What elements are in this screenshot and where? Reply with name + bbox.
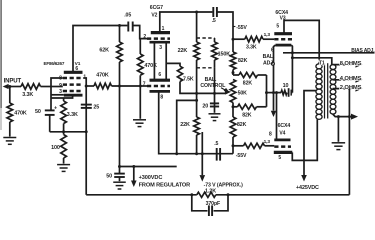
tube V1 grid row pin 8 (59, 75, 83, 81)
text 8 OHMS (340, 61, 362, 67)
wire top rail junction (195, 11, 198, 14)
svg-text:BAL.: BAL. (263, 54, 275, 60)
wire -73V drop (200, 132, 206, 182)
wire center tap to +425VDC (304, 91, 317, 175)
tube V1 pin 1 label (83, 74, 86, 80)
wire 22K column middle (195, 60, 198, 117)
svg-text:V4: V4 (279, 131, 285, 137)
svg-text:+: + (54, 106, 57, 112)
svg-text:470K: 470K (14, 110, 27, 116)
text BIAS ADJ (351, 48, 375, 54)
svg-text:ADJ.: ADJ. (263, 61, 275, 67)
wire V1 cathode rail (50, 130, 88, 133)
capacitor 20uF (202, 103, 219, 109)
potentiometer 50K balance (225, 80, 248, 103)
svg-text:50: 50 (106, 173, 112, 179)
resistor 22K upper (178, 42, 200, 60)
wire grid stopper to V1 grid bracket (41, 86, 52, 88)
tube V2b grid pin 7 (143, 82, 170, 88)
resistor 470K screen feed (94, 72, 112, 88)
text 1.2K (205, 188, 216, 194)
text 4 OHMS (340, 76, 362, 82)
capacitor 50uF B+ bypass (106, 167, 125, 182)
resistor 3.3K V3 grid (233, 36, 274, 50)
wire cathode node (267, 91, 282, 94)
svg-text:50: 50 (35, 109, 41, 115)
svg-text:62K: 62K (99, 47, 109, 53)
arrow +425VDC (296, 175, 319, 191)
wire link box to 7.5K (166, 63, 180, 66)
tube V2 pin 1 label (162, 26, 165, 32)
wire dashed link upper (197, 37, 215, 39)
node 62K junction (118, 24, 121, 27)
svg-text:2 OHMS: 2 OHMS (340, 85, 362, 91)
tube V4 pin 8 label (269, 131, 272, 137)
tube V3 pin 5 (276, 24, 279, 30)
capacitor 50uF cathode bypass (35, 106, 57, 132)
wire cathode to 8 ohm tap (292, 58, 331, 65)
capacitor 25uF screen bypass (81, 105, 99, 111)
wire corner 22K top link (177, 100, 197, 153)
wire screen node row (85, 85, 94, 88)
capacitor .5 lower (214, 141, 220, 160)
tube V2a plate (151, 31, 170, 34)
svg-text:INPUT: INPUT (4, 79, 22, 85)
tube V2b pin 6 label (158, 72, 161, 78)
wire V2 section link box (154, 44, 166, 80)
resistor 82K upper horizontal (233, 72, 267, 86)
wire 22K column bottom (196, 135, 198, 154)
wire V1 grid bracket (51, 78, 64, 110)
svg-text:22K: 22K (180, 122, 190, 128)
wire coupling cap to V2 grid (133, 26, 147, 39)
wire 150K to ground (214, 68, 216, 113)
wire secondary common (333, 114, 358, 120)
wire V1 plate riser and top rail (73, 26, 127, 73)
ground 150K bypass (209, 114, 221, 121)
svg-text:FROM REGULATOR: FROM REGULATOR (139, 183, 191, 189)
tube V3 pin 6 label (271, 47, 274, 53)
svg-text:50K: 50K (238, 91, 248, 97)
text 2 OHMS (340, 85, 362, 91)
wire 2 ohm output (333, 86, 363, 92)
tube V3 label (275, 10, 288, 21)
wire V2 plate riser and top rail (160, 12, 213, 33)
svg-text:8 OHMS: 8 OHMS (340, 61, 362, 67)
tube V2a grid pin 2 (143, 34, 170, 40)
transformer T1 label (319, 60, 325, 66)
resistor 100 ohm (51, 132, 66, 164)
svg-text:T1: T1 (319, 60, 325, 66)
tube V1 cathode (64, 94, 83, 97)
svg-text:-55V: -55V (236, 153, 247, 159)
capacitor cathode bypass (289, 88, 293, 97)
svg-text:6CG7: 6CG7 (150, 5, 163, 11)
wire 8 ohm output (333, 62, 363, 68)
svg-text:.5: .5 (212, 18, 216, 24)
svg-text:25: 25 (93, 105, 99, 111)
tube V3 cathode (276, 44, 292, 47)
svg-text:1,3: 1,3 (264, 139, 271, 145)
tube V1 grid row pin 9 (59, 83, 83, 89)
ground secondary (332, 143, 346, 150)
tube V2 label (150, 5, 163, 18)
tube V4 grid (264, 139, 291, 147)
terminal BAL ADJ (271, 62, 274, 65)
resistor 10 ohm (281, 83, 288, 95)
wire dashed link lower (197, 67, 215, 69)
wire bridge right side (265, 75, 268, 107)
wire V3 plate loop (284, 20, 319, 62)
resistor 470K V2 grid leak (138, 39, 158, 86)
tube V4 cathode (274, 138, 290, 141)
svg-text:150K: 150K (218, 52, 231, 58)
wire pot to lower bridge (232, 103, 235, 118)
svg-text:3.3K: 3.3K (67, 112, 78, 118)
resistor 470K input load (7, 87, 27, 137)
tube V4 label (278, 123, 291, 137)
svg-text:82K: 82K (243, 81, 253, 87)
svg-text:100: 100 (51, 145, 60, 151)
wire feedback rail right (216, 193, 350, 196)
svg-text:8: 8 (160, 94, 163, 100)
wire V4 cathode riser (276, 93, 278, 140)
svg-text:4 OHMS: 4 OHMS (340, 76, 362, 82)
node INPUT terminal (3, 79, 22, 90)
wire V3 cathode right drop (291, 45, 294, 93)
wire V2b cathode drop to -55V rail (159, 91, 233, 155)
wire V3 cathode left stub to BAL line (272, 45, 276, 111)
tube V3 grid (264, 32, 292, 39)
resistor 82K lower horizontal (233, 104, 267, 118)
wire primary top (318, 63, 320, 65)
tube V2a cathode (150, 42, 171, 51)
resistor 150K (212, 38, 231, 68)
resistor 22K lower (180, 117, 199, 135)
svg-text:6CX4: 6CX4 (278, 123, 291, 129)
svg-text:82K: 82K (242, 112, 252, 118)
tube V4 pin 5 (278, 155, 281, 161)
wire 7.5K to balance wiper (180, 82, 225, 95)
arrow +300VDC feed (131, 167, 137, 188)
svg-text:1,3: 1,3 (264, 32, 271, 38)
svg-text:.05: .05 (124, 13, 131, 19)
node -55V lower (236, 153, 247, 159)
svg-text:82K: 82K (238, 58, 248, 64)
wire feedback left riser (85, 132, 87, 195)
ground B+ bypass (113, 182, 126, 189)
text BAL CONTROL (200, 77, 229, 92)
wire screen row to 62K node (112, 85, 142, 88)
svg-text:+425VDC: +425VDC (296, 185, 319, 191)
svg-text:22K: 22K (178, 48, 188, 54)
resistor 7.5K (177, 66, 194, 82)
transformer core (325, 63, 328, 118)
capacitor 370pF (192, 195, 228, 216)
svg-text:20: 20 (202, 103, 208, 109)
tube V1 grid row pin 3 (59, 89, 83, 95)
tube V3 plate (274, 32, 292, 35)
svg-text:10: 10 (283, 83, 289, 89)
svg-text:3.3K: 3.3K (246, 44, 257, 50)
resistor V4 grid feed (233, 143, 274, 148)
ground V2 grid leak (133, 120, 146, 127)
transformer secondary winding (330, 65, 336, 115)
wire V2b grid leader (140, 85, 147, 87)
svg-text:BIAS ADJ.: BIAS ADJ. (351, 48, 375, 54)
ground 100 ohm (57, 165, 70, 172)
scan edge artifact (0, 0, 2, 130)
ground input load (3, 138, 16, 145)
resistor 82K upper vertical (230, 39, 236, 75)
svg-text:CONTROL: CONTROL (200, 83, 226, 89)
wire 470K to ground (139, 86, 141, 119)
wire input to grid resistor (8, 86, 22, 88)
tube V2b plate (150, 79, 171, 82)
tube V1 plate (64, 71, 83, 74)
text BAL ADJ (263, 54, 275, 67)
svg-text:7.5K: 7.5K (183, 76, 194, 82)
svg-text:5: 5 (278, 155, 281, 161)
svg-text:2: 2 (143, 34, 146, 40)
tube V1 label (44, 61, 81, 67)
wire V4 plate to primary bottom (292, 119, 317, 160)
svg-text:8: 8 (269, 131, 272, 137)
tube V1 pin 6 label (75, 66, 78, 72)
wire 4 ohm output (333, 77, 363, 83)
svg-text:+300VDC: +300VDC (139, 175, 163, 181)
svg-text:5: 5 (276, 24, 279, 30)
arrow bias sense down (271, 111, 276, 117)
svg-text:82K: 82K (237, 122, 247, 128)
svg-text:3: 3 (159, 45, 162, 51)
wire BIAS ADJ line (283, 51, 375, 54)
wire 22K column top (196, 12, 198, 42)
node V3 grid junction (232, 38, 235, 41)
wire top rail to .5 cap (212, 7, 233, 39)
node -55V upper (233, 25, 247, 31)
resistor 3.3K V1 cathode (61, 98, 78, 132)
svg-text:-55V: -55V (236, 25, 247, 31)
tube V2b cathode (150, 91, 171, 100)
svg-text:3.3K: 3.3K (22, 92, 33, 98)
svg-text:470K: 470K (96, 72, 109, 78)
wire V1 cathode to bypass (51, 95, 73, 98)
capacitor .05 coupling (124, 13, 133, 32)
svg-text:6: 6 (158, 72, 161, 78)
svg-text:EF86/6267: EF86/6267 (44, 61, 65, 66)
wire +300VDC rail (118, 165, 177, 168)
resistor 82K lower vertical (230, 117, 246, 146)
svg-text:V2: V2 (151, 13, 157, 19)
wire feedback rail left (86, 193, 197, 196)
wire common to ground (337, 117, 339, 142)
svg-text:370pF: 370pF (206, 201, 221, 207)
label 82K upper vertical (238, 58, 248, 64)
wire V1 pin1 screen drop (83, 78, 86, 132)
node V4 grid junction (232, 144, 235, 153)
wire feedback takeoff (348, 89, 350, 195)
tube V4 plate (274, 151, 293, 154)
transformer primary winding (316, 64, 322, 120)
resistor 62K plate load (99, 26, 122, 167)
text +300VDC FROM REGULATOR (139, 175, 191, 188)
text -73V approx (204, 182, 244, 188)
resistor 1.2K feedback (197, 192, 216, 197)
resistor 3.3K grid stopper (21, 84, 41, 99)
svg-text:.5: .5 (214, 141, 218, 147)
